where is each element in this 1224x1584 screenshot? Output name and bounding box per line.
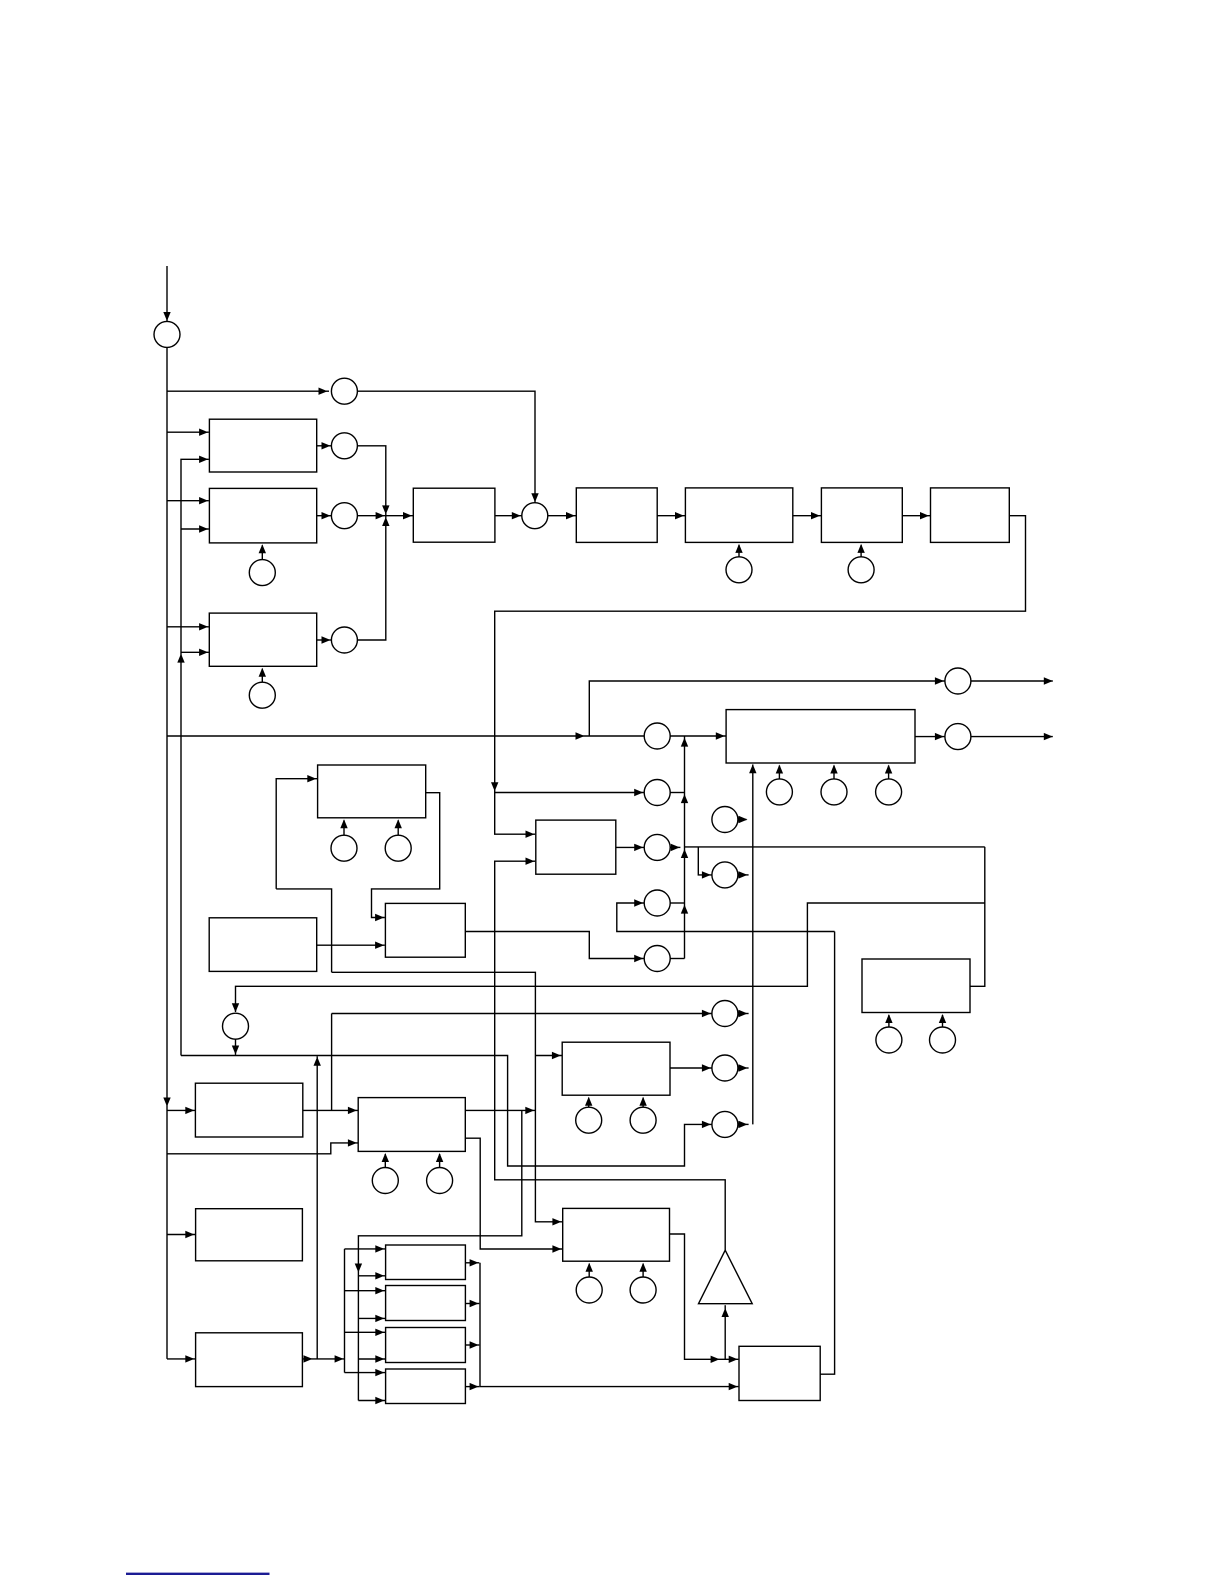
node P9 mod level [712,862,738,888]
wire node N13 to lower bus [232,1039,239,1055]
node P2 under block A3 [249,668,275,709]
block M1 [358,1098,465,1152]
wire block C1 to summer S1 [495,512,522,519]
node P1 under block A2 [249,544,275,585]
node N9 output level right [945,724,971,750]
wire bus A to block S2 input 1 [345,1287,386,1294]
block L1 [195,1083,302,1137]
wire node N6 to merge bus [670,792,684,794]
node P6 under main block [821,765,847,805]
wire right feedback loop row3 [685,846,985,848]
node P3 under block C3 [726,544,752,583]
wire bus A vertical [344,1249,346,1373]
wire block C3 to block C4 [793,512,821,519]
wire cross line to block M3 input 1 [332,972,562,1225]
wire bus A to block S3 input 1 [345,1329,386,1336]
node P16 under block M1 [372,1153,398,1194]
wire block C4 to block C5 [902,512,930,519]
wire node N15 to carrier bus [738,1064,749,1071]
node P10 under block RMOD [876,1014,902,1053]
wire block S1 output to bus C [465,1259,479,1266]
wire carrier bus vertical [749,764,756,1124]
wire block A1 output [317,442,332,449]
wire block B0 to block MID2 [317,942,385,949]
node P8 carrier source [712,807,748,833]
wire node N3 to junction J1 [357,446,389,516]
summer S1 [522,503,548,529]
block C1 [413,488,495,542]
wire trunk to block A2 input 1 [167,497,209,504]
wire feedback riser to block A1 input 2 [177,456,209,1056]
node N15 vibrato gain [712,1055,738,1081]
wire block MID1 output to block MID2 [372,793,440,922]
wire block M1 output 2 to block M3 input 2 [465,1138,562,1253]
wire block S3 output to bus C [465,1341,479,1348]
block L2 [196,1209,303,1261]
wire riser branch to block A2 input 2 [181,525,209,532]
node N1 input scale [154,321,180,347]
wire node N12 to merge bus [670,958,684,960]
node P12 under block MID1 [331,819,357,861]
wire right loop branch long line [232,903,985,1012]
wire block S4 output to bus C [465,1383,479,1390]
node P14 under block M2 [576,1097,602,1134]
wire input line into node N1 [163,266,170,323]
footer link line [126,1573,270,1575]
wire summer S1 to block C2 [548,512,576,519]
wire line riser to block M1 input 1 [331,1014,333,1111]
wire M1 output branch to lower bus B [355,1110,522,1400]
block BOT [739,1346,820,1400]
wire block A2 output [317,512,332,519]
block C3 [685,488,792,543]
wire row1 riser to output node N8 [589,677,944,736]
block A1 [209,419,316,472]
node N3 gain A1 [331,433,357,459]
wire feedback branch to node N6 [495,789,644,796]
wire branch to block MID1 input [276,775,317,889]
node N6 row2 gain [644,780,670,806]
wire node N16 to carrier bus [738,1121,749,1128]
wire node N14 to carrier bus [738,1010,749,1017]
block MAIN [726,710,915,763]
wire block M2 output to node N15 [670,1064,712,1071]
wire branch to block M2 input [535,1052,561,1059]
block C4 [821,488,902,543]
wire into amplifier TRI base [722,1305,729,1359]
wire bus B to block S1 input 2 [358,1272,385,1279]
block M2 [562,1042,670,1095]
wire node N8 output arrow [971,677,1053,684]
wire node N9 output arrow [971,733,1053,740]
node P11 under block RMOD [930,1014,956,1053]
node N8 output level left [945,668,971,694]
block S3 formant [386,1328,466,1363]
wire riser to node N11 [617,899,835,931]
wire block BX to node N7 [616,844,644,851]
wire trunk branch to node N2 [167,388,329,395]
wire trunk to block L2 [167,1231,195,1238]
wire lower bus left [181,1056,712,1167]
wire block A3 output [317,636,332,643]
node P5 under main block [766,765,792,805]
node P15 under block M2 [630,1097,656,1134]
wire node N7 to merge bus [670,844,680,851]
wire trunk to block A3 input 1 [167,623,209,630]
block S2 formant [386,1286,466,1321]
node N14 level gain [712,1001,738,1027]
wire main trunk vertical [163,347,170,1359]
wire block S2 output to bus C [465,1300,479,1307]
node N4 gain A2 [331,503,357,529]
wire node N4 through junction J1 to block C1 [357,512,413,519]
wire node N5 to junction J1 [357,516,389,640]
node N16 pitch gain [712,1111,738,1137]
block A3 [209,613,316,666]
wire block L3 output to bus A [302,1355,344,1362]
wire merge bus vertical [681,736,688,959]
node P19 under block M3 [630,1263,656,1303]
wire block C5 output feedback [491,516,1026,838]
node P4 under block C4 [848,544,874,583]
wire main block output to node N9 [915,733,945,740]
block S1 formant [386,1245,466,1280]
wire trunk to block L3 [167,1355,195,1362]
wire right loop riser [970,847,985,986]
amplifier TRI [699,1250,753,1304]
node N7 row3 gain [644,834,670,860]
wire bus A to block S4 input 1 [345,1369,386,1376]
block A2 [209,488,316,543]
node N13 feedback gain [223,1013,249,1039]
wire trunk to block A1 input 1 [167,429,209,436]
wire block L3 output riser [314,1056,321,1359]
wire block BOT output riser [820,932,834,1375]
wire block M1 output 1 to M3 line [465,1107,535,1114]
block MID2 [385,903,465,957]
wire riser branch to block A3 input 2 [181,649,209,656]
wire node N2 to summer S1 top [357,391,538,503]
wire node N10 to main block [670,732,725,739]
node P18 under block M3 [576,1263,602,1303]
wire node P9 to carrier bus [738,871,749,878]
wire bus A to block S1 input 1 [345,1245,386,1252]
node P7 under main block [876,765,902,805]
block M3 [563,1208,670,1261]
wire bus C to block BOT input 2 [480,1263,738,1391]
block C5 [931,488,1010,543]
node P17 under block M1 [427,1153,453,1194]
wire node N11 to merge bus [670,902,684,904]
block S4 formant [386,1369,466,1404]
block C2 [576,488,657,543]
wire block C2 to block C3 [657,512,685,519]
wire block M3 output [670,1234,739,1363]
block RMOD [862,959,970,1013]
wire block L1 output to block M1 input 1 [303,1107,358,1114]
wire trunk jog to block M1 input 2 [167,1139,358,1154]
wire block MID2 output to node N12 [465,932,644,963]
node N2 bypass gain [331,378,357,404]
wire staircase MID1 input branch [276,889,331,972]
wire long line to node N14 [332,1010,712,1017]
wire amplifier TRI output to block BX input 2 [495,858,726,1251]
wire trunk to block L1 [167,1107,195,1114]
node P13 under block MID1 [385,819,411,861]
wire bus B to block S2 input 2 [358,1315,385,1322]
node N10 row1 gain [644,723,670,749]
block L3 [196,1333,303,1387]
node N11 row4 gain [644,890,670,916]
block MID1 [318,765,426,818]
wire right loop branch to node P9 [698,847,711,879]
block BX envelope [536,820,616,874]
wire trunk branch row1 to node N10 [167,732,644,739]
node N5 gain A3 [331,627,357,653]
node N12 row5 gain [644,946,670,972]
block B0 [209,918,317,972]
wire bus B to block S3 input 2 [358,1355,385,1362]
wire bus B to block S4 input 2 [358,1397,385,1404]
